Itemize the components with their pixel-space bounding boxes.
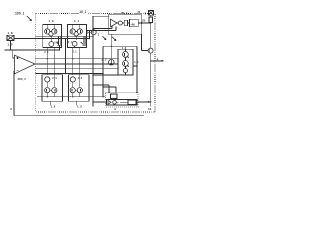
svg-text:22: 22: [142, 19, 146, 23]
comparator block 20_1: [109, 11, 151, 35]
svg-text:200_1: 200_1: [18, 77, 27, 81]
bus wire mid 3: [36, 68, 118, 70]
svg-text:1_3: 1_3: [77, 105, 82, 109]
svg-text:A: A: [114, 107, 116, 111]
bus wire mid 4: [36, 73, 103, 75]
riser x89: [88, 30, 90, 38]
cell 1_3: [69, 75, 90, 109]
svg-text:1: 1: [98, 33, 100, 37]
bus wire sense upper: [36, 38, 90, 40]
cell 1_6: [43, 19, 62, 54]
pointer arrow 1_2: [112, 37, 116, 41]
input terminal 1_8: [7, 31, 14, 47]
svg-text:2_4: 2_4: [52, 76, 57, 80]
node OUT wire 4: [151, 60, 164, 62]
label 10_1: [79, 9, 89, 14]
junction dots: [47, 16, 152, 103]
cell 1_1: [68, 19, 87, 54]
wire into block 20_2: [93, 101, 107, 103]
riser wires cells left pair: [47, 48, 54, 75]
outer dashed block 10_1: [36, 14, 155, 112]
svg-text:3: 3: [145, 12, 147, 16]
svg-text:÷M: ÷M: [130, 23, 135, 27]
svg-text:10: 10: [148, 107, 152, 111]
op-amp 200_1: [15, 55, 36, 81]
rail D right of cell: [136, 46, 138, 93]
transistor 1: [88, 30, 106, 40]
wire op-amp minus input: [14, 71, 144, 116]
riser wires cells right pair: [73, 48, 80, 75]
vertical rail C right: [150, 15, 152, 106]
bus wire bottom source: [37, 96, 106, 98]
bus wire mid 2 op-amp out: [35, 63, 118, 65]
cell 1_2: [118, 46, 139, 75]
svg-text:1_1: 1_1: [74, 19, 79, 23]
comparator block 20_2: [106, 85, 151, 111]
riser wire between cells: [64, 39, 66, 74]
svg-text:2_3: 2_3: [78, 76, 83, 80]
resistor 22: [142, 17, 153, 23]
svg-text:2_1: 2_1: [73, 51, 78, 54]
svg-text:2: 2: [10, 107, 12, 111]
svg-text:1_4: 1_4: [51, 105, 56, 109]
svg-text:2_6: 2_6: [44, 51, 49, 54]
svg-text:1_6: 1_6: [49, 19, 54, 23]
output transistor 21: [142, 35, 154, 54]
svg-text:1_8: 1_8: [8, 31, 13, 35]
bus wire mid 1: [36, 58, 118, 60]
svg-text:2_1: 2_1: [68, 41, 73, 44]
current source 2_2: [102, 35, 115, 66]
sense wire cell 1_1 to block: [86, 29, 116, 31]
svg-text:2_2: 2_2: [102, 58, 107, 62]
wire y46: [103, 45, 137, 47]
wire cell 1_2 rows: [93, 74, 118, 76]
svg-text:24: 24: [138, 11, 141, 14]
svg-text:100_1: 100_1: [15, 12, 25, 16]
svg-text:10_1: 10_1: [79, 10, 86, 14]
sense wire rail to block: [93, 27, 112, 29]
terminal 3 top right: [138, 10, 154, 15]
bus wire gate upper: [36, 35, 93, 37]
wire terminal to bus: [14, 38, 36, 40]
wire rail A to block 20_1: [93, 16, 109, 18]
wire feedback loop: [5, 41, 60, 58]
vertical rail A: [92, 17, 94, 107]
vertical rail B: [102, 46, 104, 97]
label 100_1: [15, 12, 32, 21]
cell 1_4: [42, 75, 63, 109]
